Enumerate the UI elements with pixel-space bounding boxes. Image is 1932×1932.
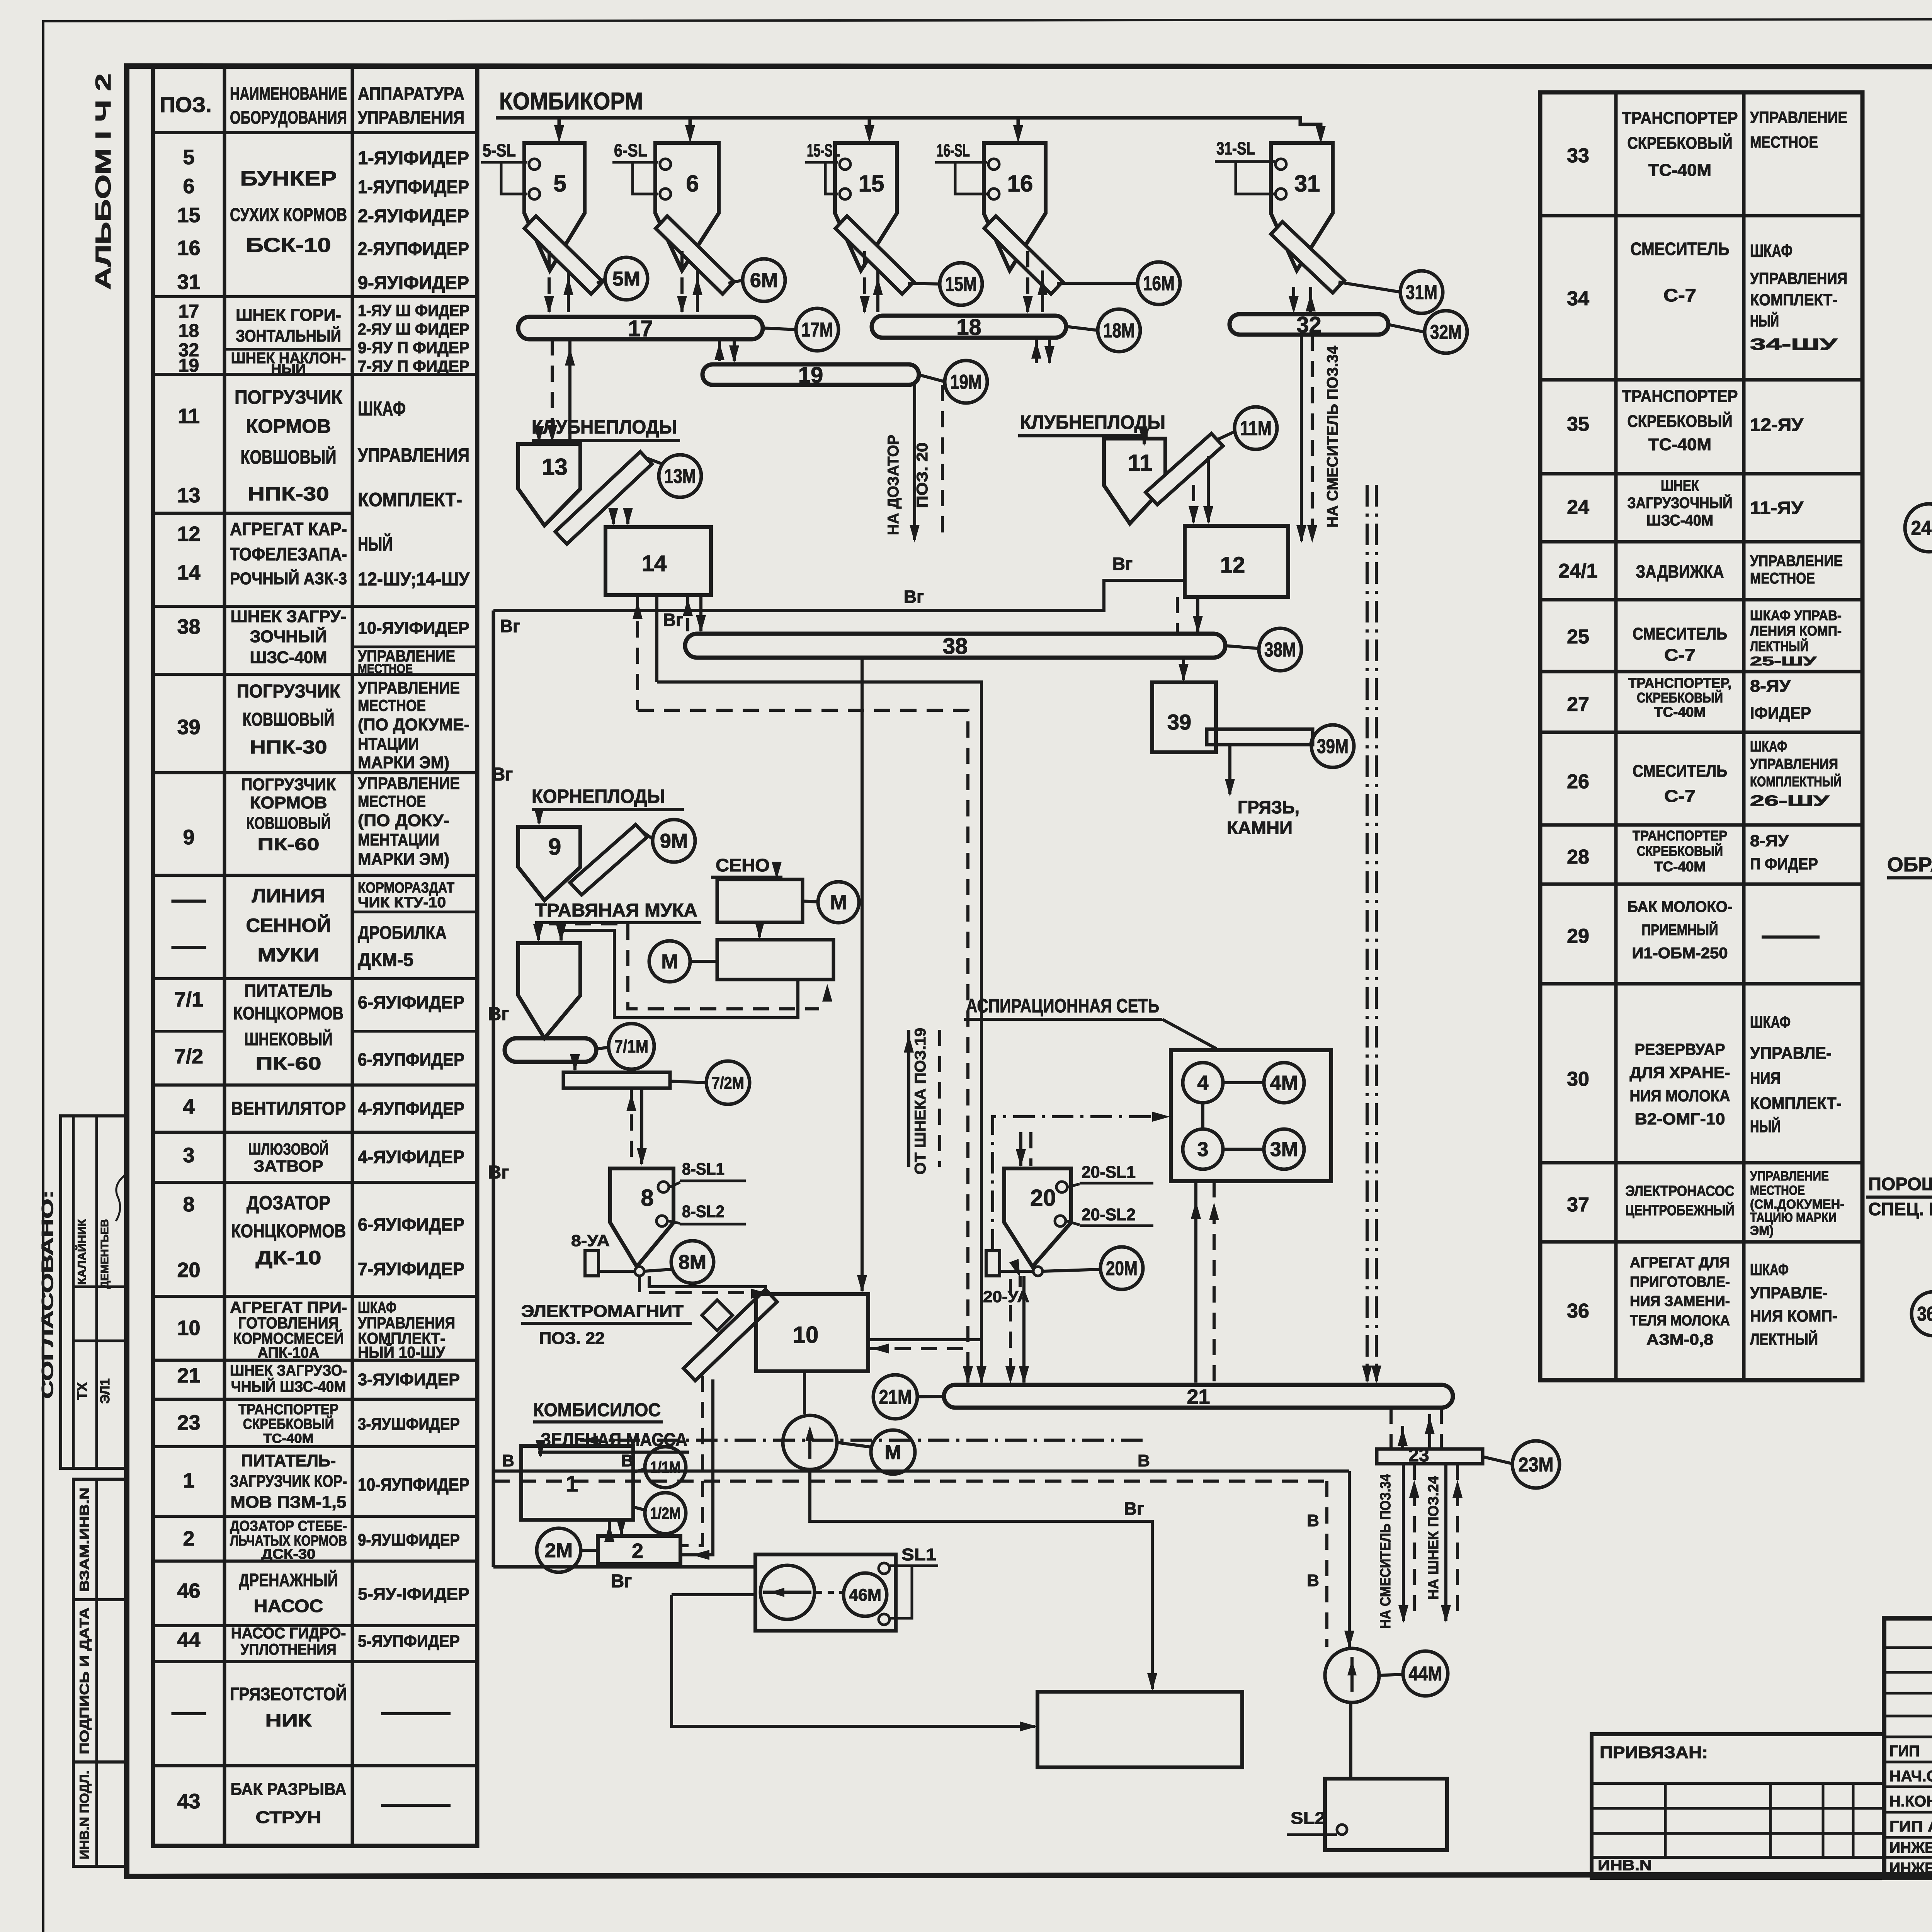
svg-text:1-ЯУ Ш ФИДЕР: 1-ЯУ Ш ФИДЕР [358,301,469,320]
В lines down to pump 44 [1348,1471,1351,1647]
svg-text:5М: 5М [612,268,640,290]
junction of 20 [1033,1267,1043,1276]
svg-text:В: В [1307,1511,1319,1530]
svg-text:АЗМ-0,8: АЗМ-0,8 [1646,1331,1713,1348]
svg-text:17: 17 [179,301,199,322]
svg-text:НА ШНЕК ПОЗ.24: НА ШНЕК ПОЗ.24 [1425,1476,1442,1600]
svg-text:25: 25 [1567,626,1589,648]
wires conveyor31 to 32 [1292,287,1295,312]
svg-text:18: 18 [179,321,199,341]
svg-text:9-ЯУШФИДЕР: 9-ЯУШФИДЕР [358,1531,460,1549]
svg-text:28: 28 [1567,846,1589,868]
svg-text:УПРАВЛЕНИЯ: УПРАВЛЕНИЯ [358,444,469,466]
svg-text:ДОЗАТОР: ДОЗАТОР [247,1192,330,1214]
wires box10 right to 21 [868,1338,981,1341]
svg-text:ИНЖЕН.: ИНЖЕН. [1889,1839,1932,1856]
svg-text:П ФИДЕР: П ФИДЕР [1750,855,1818,873]
svg-text:КОНЦКОРМОВ: КОНЦКОРМОВ [233,1003,344,1023]
svg-text:ЦЕНТРОБЕЖНЫЙ: ЦЕНТРОБЕЖНЫЙ [1626,1201,1735,1219]
svg-text:НЫЙ: НЫЙ [271,361,306,376]
svg-text:20М: 20М [1106,1257,1138,1280]
svg-text:ГИП: ГИП [1889,1743,1920,1760]
svg-text:2-ЯУПФИДЕР: 2-ЯУПФИДЕР [358,239,469,259]
svg-text:1-ЯУПФИДЕР: 1-ЯУПФИДЕР [358,177,469,197]
svg-text:(СМ.ДОКУМЕН-: (СМ.ДОКУМЕН- [1750,1197,1844,1212]
svg-text:СТРУН: СТРУН [256,1808,321,1827]
svg-text:4-ЯУПФИДЕР: 4-ЯУПФИДЕР [358,1099,464,1119]
svg-text:ГИП А: ГИП А [1889,1818,1932,1835]
svg-text:РОЧНЫЙ АЗК-3: РОЧНЫЙ АЗК-3 [230,568,347,588]
svg-text:4М: 4М [1270,1072,1298,1094]
svg-text:6: 6 [686,170,699,196]
svg-text:8: 8 [641,1185,653,1211]
svg-text:ПОГРУЗЧИК: ПОГРУЗЧИК [235,386,342,408]
svg-text:31-SL: 31-SL [1216,138,1255,158]
svg-text:СКРЕБКОВЫЙ: СКРЕБКОВЫЙ [243,1415,334,1432]
svg-text:20-SL2: 20-SL2 [1082,1205,1136,1224]
svg-text:ОБРАТ: ОБРАТ [1887,854,1932,876]
motor circle 8М [671,1241,714,1283]
svg-text:УПРАВЛЕ-: УПРАВЛЕ- [1750,1284,1828,1302]
svg-text:КАЛАЙНИК: КАЛАЙНИК [75,1219,88,1285]
svg-text:КОМБИСИЛОС: КОМБИСИЛОС [533,1400,661,1420]
svg-text:7-ЯУIФИДЕР: 7-ЯУIФИДЕР [358,1259,464,1279]
svg-text:ЗОЧНЫЙ: ЗОЧНЫЙ [250,626,327,646]
motor circle 32М [1425,311,1467,353]
wire сено box to дробилка [758,922,761,937]
svg-text:Н.КОНТР.: Н.КОНТР. [1889,1793,1932,1810]
svg-text:38М: 38М [1264,639,1296,661]
svg-text:ПРИГОТОВЛЕ-: ПРИГОТОВЛЕ- [1630,1274,1730,1290]
svg-text:21М: 21М [879,1386,912,1408]
Вг main left vertical [492,611,495,1567]
svg-text:26: 26 [1567,770,1589,793]
svg-text:НТАЦИИ: НТАЦИИ [358,735,419,753]
svg-text:20: 20 [1030,1185,1056,1211]
motor circle 4 [1183,1063,1223,1103]
svg-text:М: М [884,1441,901,1464]
svg-text:ШЗС-40М: ШЗС-40М [1646,512,1713,529]
conveyor of bunker 6 [656,216,734,294]
wire комбикорм feed line [496,118,1321,135]
svg-text:НИЯ МОЛОКА: НИЯ МОЛОКА [1630,1087,1730,1105]
svg-text:13: 13 [542,454,568,480]
svg-text:КОМПЛЕКТ-: КОМПЛЕКТ- [1750,291,1837,309]
svg-text:РЕЗЕРВУАР: РЕЗЕРВУАР [1635,1040,1725,1058]
svg-text:ИНВ.N: ИНВ.N [1598,1857,1652,1874]
svg-text:НЫЙ 10-ШУ: НЫЙ 10-ШУ [358,1343,446,1361]
svg-text:Вг: Вг [500,616,520,636]
svg-text:12: 12 [1220,553,1245,578]
svg-text:1: 1 [566,1471,578,1497]
svg-text:НАСОС ГИДРО-: НАСОС ГИДРО- [231,1625,346,1642]
svg-text:44: 44 [177,1628,200,1651]
svg-text:ГРЯЗЬ,: ГРЯЗЬ, [1238,797,1299,817]
svg-text:4: 4 [1197,1072,1209,1094]
svg-text:5: 5 [553,170,566,196]
dashdot horizontal line поз.22 [580,1439,1144,1442]
svg-text:ТС-40М: ТС-40М [1648,161,1711,180]
svg-text:8-ЯУ: 8-ЯУ [1750,677,1791,696]
svg-text:КОВШОВЫЙ: КОВШОВЫЙ [241,446,337,468]
motor circle 44М [1403,1651,1448,1696]
motor circle 7/2М [706,1061,750,1104]
svg-text:ПОГРУЗЧИК: ПОГРУЗЧИК [237,681,340,702]
wire feed drop [558,118,561,133]
svg-text:2М: 2М [545,1539,573,1562]
pump 44 [1325,1648,1379,1702]
svg-text:КОВШОВЫЙ: КОВШОВЫЙ [242,709,334,730]
svg-text:НА СМЕСИТЕЛЬ ПОЗ.34: НА СМЕСИТЕЛЬ ПОЗ.34 [1324,345,1341,527]
svg-text:НАСОС: НАСОС [254,1596,323,1616]
svg-text:ТРАНСПОРТЕР: ТРАНСПОРТЕР [1622,387,1738,406]
bunker 5 [524,143,585,270]
wires box12 to conveyor 38 [1176,597,1179,632]
svg-text:ТРАНСПОРТЕР: ТРАНСПОРТЕР [1622,109,1738,128]
svg-text:МЕСТНОЕ: МЕСТНОЕ [1750,1183,1805,1198]
svg-text:ШКАФ УПРАВ-: ШКАФ УПРАВ- [1750,607,1842,623]
conveyor 7/1 [505,1038,596,1062]
wire Вг stub into box14 [686,595,689,611]
svg-text:9: 9 [548,834,561,860]
svg-text:20-SL1: 20-SL1 [1082,1163,1136,1182]
svg-text:5-SL: 5-SL [483,140,516,160]
дозатор 8 [610,1168,673,1267]
hopper 13 [518,444,580,526]
svg-text:2-ЯУIФИДЕР: 2-ЯУIФИДЕР [358,206,469,226]
wires 7/2 to дозатор 8 [630,1088,633,1164]
svg-text:ПИТАТЕЛЬ-: ПИТАТЕЛЬ- [241,1451,336,1470]
svg-text:ДРЕНАЖНЫЙ: ДРЕНАЖНЫЙ [239,1570,338,1590]
svg-text:23: 23 [1408,1445,1429,1466]
svg-text:МАРКИ ЭМ): МАРКИ ЭМ) [358,753,449,772]
В suction lines [493,1469,1349,1473]
svg-text:ПОДПИСЬ И ДАТА: ПОДПИСЬ И ДАТА [77,1607,92,1754]
svg-text:КОРМОВ: КОРМОВ [246,415,331,437]
motor circle 16М [1138,262,1180,304]
svg-text:КАМНИ: КАМНИ [1227,818,1293,838]
svg-text:УПРАВЛЕНИЕ: УПРАВЛЕНИЕ [358,774,460,793]
svg-text:ЛИНИЯ: ЛИНИЯ [252,885,325,906]
svg-text:ГРЯЗЕОТСТОЙ: ГРЯЗЕОТСТОЙ [230,1684,347,1704]
svg-text:16-SL: 16-SL [937,140,970,160]
svg-text:СКРЕБКОВЫЙ: СКРЕБКОВЫЙ [1628,133,1733,153]
conveyor 18 [872,316,1066,338]
svg-text:ИНВ.N ПОДЛ.: ИНВ.N ПОДЛ. [77,1770,92,1859]
wire dashdot to conveyor 23 [1366,485,1369,1381]
motor circle 6М [743,259,785,301]
motor circle 23М [1512,1441,1560,1488]
svg-text:ДЛЯ ХРАНЕ-: ДЛЯ ХРАНЕ- [1630,1063,1730,1082]
svg-text:38: 38 [177,615,200,638]
svg-text:АППАРАТУРА: АППАРАТУРА [358,83,464,104]
svg-text:КОРМОРАЗДАТ: КОРМОРАЗДАТ [358,880,454,896]
svg-text:5-ЯУПФИДЕР: 5-ЯУПФИДЕР [358,1632,460,1651]
bunker 16 [984,143,1046,270]
wire 38 to box 39 [1182,658,1185,680]
side stamp СОГЛАСОВАНО block [61,1116,127,1468]
svg-text:НИК: НИК [265,1710,312,1730]
conveyor 11 [1146,434,1223,505]
svg-text:39М: 39М [1317,735,1349,758]
box 14 [605,527,711,595]
svg-text:ОБОРУДОВАНИЯ: ОБОРУДОВАНИЯ [230,107,347,128]
motor circle 1/1М [645,1447,686,1488]
svg-text:В: В [502,1451,514,1470]
box дробилка ДКМ-5 [717,940,833,980]
svg-text:8: 8 [183,1193,194,1216]
электромагнит diamond [702,1300,732,1330]
motor circle М [649,941,690,982]
svg-text:46М: 46М [849,1585,881,1604]
svg-text:14: 14 [642,551,667,576]
side stamp lower block [73,1479,127,1866]
motor circle 15М [940,263,982,305]
svg-text:КОМПЛЕКТ-: КОМПЛЕКТ- [1750,1094,1842,1113]
wires 32 down / label на смеситель поз.34 [1300,335,1303,541]
svg-text:6-ЯУIФИДЕР: 6-ЯУIФИДЕР [358,992,464,1012]
svg-text:УПРАВЛЕНИЕ: УПРАВЛЕНИЕ [1750,553,1843,570]
svg-text:ЧИК КТУ-10: ЧИК КТУ-10 [358,895,446,911]
svg-text:МАРКИ ЭМ): МАРКИ ЭМ) [358,850,449,869]
left equipment table frame [153,66,477,1846]
svg-text:9-ЯУIФИДЕР: 9-ЯУIФИДЕР [358,273,469,293]
svg-text:30: 30 [1567,1068,1589,1090]
svg-text:25-ШУ: 25-ШУ [1750,654,1817,668]
svg-text:44М: 44М [1409,1663,1442,1685]
svg-text:12-ШУ;14-ШУ: 12-ШУ;14-ШУ [358,569,470,590]
wires 11 to box 12 [1192,485,1195,522]
svg-text:ДКМ-5: ДКМ-5 [358,950,413,970]
svg-text:УПРАВЛЕНИЕ: УПРАВЛЕНИЕ [1750,108,1847,126]
svg-text:(ПО ДОКУ-: (ПО ДОКУ- [358,811,449,830]
svg-text:10-ЯУПФИДЕР: 10-ЯУПФИДЕР [358,1475,469,1495]
bottom box water [1037,1692,1242,1767]
svg-text:ЛЕКТНЫЙ: ЛЕКТНЫЙ [1750,638,1808,654]
svg-text:9М: 9М [660,830,688,852]
wire into 46 [672,1593,755,1596]
svg-text:СМЕСИТЕЛЬ: СМЕСИТЕЛЬ [1631,239,1730,259]
svg-text:ТРАНСПОРТЕР: ТРАНСПОРТЕР [238,1401,338,1418]
svg-text:15: 15 [859,170,884,196]
title block [1884,1618,1932,1878]
svg-text:ЭЛЕКТРОНАСОС: ЭЛЕКТРОНАСОС [1626,1183,1735,1199]
svg-text:В2-ОМГ-10: В2-ОМГ-10 [1635,1110,1725,1128]
svg-text:9: 9 [183,826,194,849]
motor circle 17М [796,308,838,351]
svg-text:21: 21 [177,1364,200,1387]
pins of bunker 5 [529,159,540,170]
svg-text:ТС-40М: ТС-40М [1648,435,1711,454]
svg-text:17М: 17М [801,319,833,341]
motor circle 46М [844,1573,887,1616]
svg-text:НА ДОЗАТОР: НА ДОЗАТОР [885,435,902,535]
svg-text:43: 43 [177,1790,200,1813]
svg-text:3-ЯУIФИДЕР: 3-ЯУIФИДЕР [358,1370,460,1389]
svg-text:6-ЯУПФИДЕР: 6-ЯУПФИДЕР [358,1049,464,1070]
wires 20 junction to 21 [1009,1279,1012,1383]
svg-text:Вг: Вг [488,1162,509,1183]
svg-text:8-УА: 8-УА [571,1231,610,1250]
svg-text:Вг: Вг [492,764,513,785]
svg-text:НА СМЕСИТЕЛЬ ПОЗ.34: НА СМЕСИТЕЛЬ ПОЗ.34 [1378,1474,1394,1629]
motor circle 13М [659,455,701,497]
svg-text:7/1М: 7/1М [614,1036,648,1056]
svg-text:НЫЙ: НЫЙ [358,533,393,555]
svg-text:ТРАВЯНАЯ МУКА: ТРАВЯНАЯ МУКА [535,900,697,921]
svg-text:МУКИ: МУКИ [258,944,320,966]
svg-text:ТС-40М: ТС-40М [264,1431,314,1446]
label на дозатор поз.20 [913,385,916,540]
svg-text:8-SL1: 8-SL1 [682,1160,724,1179]
motor circle 7/1М [609,1024,654,1069]
svg-text:4-ЯУIФИДЕР: 4-ЯУIФИДЕР [358,1147,464,1167]
дозатор 20 [1004,1168,1071,1267]
svg-text:СКРЕБКОВЫЙ: СКРЕБКОВЫЙ [1637,689,1723,706]
svg-text:ПРИЕМНЫЙ: ПРИЕМНЫЙ [1642,921,1718,939]
svg-text:СЕНО: СЕНО [716,855,770,875]
svg-text:29: 29 [1567,925,1589,947]
wire feed drop [1017,118,1020,133]
wires на смеситель / на шнек [1402,1464,1405,1621]
svg-text:11: 11 [178,405,200,428]
svg-text:АГРЕГАТ ДЛЯ: АГРЕГАТ ДЛЯ [1630,1255,1730,1271]
conveyor 9 [570,825,647,895]
svg-text:СПЕЦ. КОМБИКОРМ: СПЕЦ. КОМБИКОРМ [1868,1199,1932,1219]
svg-text:УПРАВЛЕНИЕ: УПРАВЛЕНИЕ [358,679,460,697]
svg-text:ТОФЕЛЕЗАПА-: ТОФЕЛЕЗАПА- [230,544,347,564]
svg-text:СОГЛАСОВАНО:: СОГЛАСОВАНО: [38,1190,56,1399]
svg-text:19: 19 [179,355,199,376]
svg-text:ШЗС-40М: ШЗС-40М [250,648,327,667]
motor circle 3 [1183,1129,1223,1169]
svg-text:7-ЯУ П ФИДЕР: 7-ЯУ П ФИДЕР [358,357,469,375]
motor circle 5М [605,257,648,300]
motor circle 20М [1100,1247,1143,1289]
svg-text:1/1М: 1/1М [650,1458,681,1476]
svg-text:В: В [1307,1571,1319,1590]
wire pump44 to bak 43 [1349,1702,1352,1777]
wires 17-19, 18-19 [718,339,721,361]
conveyor 17 [518,317,763,339]
svg-text:ВЗАМ.ИНВ.N: ВЗАМ.ИНВ.N [77,1488,92,1592]
pins of bunker 15 [840,159,850,170]
аспирационная сеть box [1171,1050,1331,1181]
wires от шнека поз.19 [907,1030,910,1167]
svg-text:6-ЯУIФИДЕР: 6-ЯУIФИДЕР [358,1214,464,1235]
svg-text:ДРОБИЛКА: ДРОБИЛКА [358,923,447,943]
svg-text:ТРАНСПОРТЕР,: ТРАНСПОРТЕР, [1628,675,1731,691]
svg-text:МЕСТНОЕ: МЕСТНОЕ [358,662,413,676]
box измельчитель сена [717,879,803,922]
svg-text:11М: 11М [1240,417,1272,440]
motor circle 24М [1905,504,1932,552]
svg-text:ПОРОШОК ЗЦМ ИЛИ: ПОРОШОК ЗЦМ ИЛИ [1868,1174,1932,1194]
svg-text:24: 24 [1567,496,1589,519]
Вг line to box 1 bottom [810,1469,1152,1689]
svg-text:31: 31 [177,270,200,294]
wires conveyor10 down to box 2 [680,1376,702,1546]
svg-text:МЕСТНОЕ: МЕСТНОЕ [1750,570,1815,587]
svg-text:НИЯ: НИЯ [1750,1069,1781,1088]
svg-text:УПРАВЛЕНИЕ: УПРАВЛЕНИЕ [1750,1169,1829,1184]
wire 38 to box 10 vertical [861,658,864,1291]
svg-text:ТХ: ТХ [74,1382,90,1400]
2М [580,1549,598,1552]
svg-text:ШКАФ: ШКАФ [1750,241,1793,261]
svg-text:БУНКЕР: БУНКЕР [240,167,337,190]
привязан block [1592,1734,1884,1878]
21М [917,1396,944,1397]
svg-text:19М: 19М [950,371,982,393]
1/1М 1/2М [633,1469,645,1472]
svg-text:6: 6 [183,175,194,198]
svg-text:2: 2 [183,1527,194,1550]
svg-text:МЕНТАЦИИ: МЕНТАЦИИ [358,830,439,849]
svg-text:НИЯ КОМП-: НИЯ КОМП- [1750,1307,1837,1325]
svg-text:Вг: Вг [1112,554,1133,574]
svg-text:МЕСТНОЕ: МЕСТНОЕ [1750,133,1818,151]
motor circle 36М [1912,1292,1932,1336]
motor circle 3М [1264,1129,1304,1169]
svg-text:26-ШУ: 26-ШУ [1750,793,1830,809]
wires аспирация down to 21 [1194,1181,1197,1383]
svg-text:КОНЦКОРМОВ: КОНЦКОРМОВ [231,1221,346,1242]
svg-text:ДОЗАТОР СТЕБЕ-: ДОЗАТОР СТЕБЕ- [230,1518,347,1534]
conveyor of bunker 31 [1271,222,1344,293]
svg-text:16М: 16М [1143,272,1175,295]
svg-text:46: 46 [177,1579,200,1602]
wires 1 to 2 [608,1520,611,1535]
svg-text:14: 14 [177,561,200,584]
svg-text:23М: 23М [1519,1454,1554,1476]
svg-text:7/2: 7/2 [174,1045,203,1068]
svg-text:ДСК-30: ДСК-30 [262,1546,316,1562]
motor circle 1/2М [645,1493,686,1534]
row грязеотстойник [172,1712,206,1715]
motor circle 11М [1235,407,1277,449]
svg-text:36М: 36М [1917,1303,1932,1325]
svg-text:5-ЯУ-IФИДЕР: 5-ЯУ-IФИДЕР [358,1585,469,1604]
svg-text:АГРЕГАТ КАР-: АГРЕГАТ КАР- [230,519,347,539]
svg-text:СМЕСИТЕЛЬ: СМЕСИТЕЛЬ [1633,624,1727,643]
svg-text:ЗАДВИЖКА: ЗАДВИЖКА [1636,561,1724,582]
wire Вг from left to box12 [493,580,1185,611]
svg-text:КОВШОВЫЙ: КОВШОВЫЙ [246,813,330,833]
svg-text:(ПО ДОКУМЕ-: (ПО ДОКУМЕ- [358,715,469,734]
wires 8 to conveyor 10 [639,1276,767,1293]
hopper 11 [1104,439,1165,524]
svg-text:11: 11 [1128,450,1152,476]
dashdot 20-УА up to аспирация [993,1117,1168,1251]
svg-text:2: 2 [632,1539,643,1563]
svg-text:7/2М: 7/2М [712,1073,744,1092]
svg-text:КОРНЕПЛОДЫ: КОРНЕПЛОДЫ [532,786,665,807]
junction of 8 [635,1267,644,1276]
motor circle 38М [1259,628,1301,671]
svg-text:ПОГРУЗЧИК: ПОГРУЗЧИК [241,775,336,794]
svg-text:ДК-10: ДК-10 [256,1247,321,1269]
svg-text:СКРЕБКОВЫЙ: СКРЕБКОВЫЙ [1628,411,1733,431]
pump circle [783,1415,837,1469]
svg-text:33: 33 [1567,145,1589,167]
svg-text:20-УА: 20-УА [983,1287,1029,1306]
svg-text:18: 18 [956,315,981,340]
svg-text:ШКАФ: ШКАФ [1750,738,1787,755]
svg-text:АПК-10А: АПК-10А [258,1344,320,1361]
motor circle 31М [1400,271,1443,313]
svg-text:23: 23 [177,1411,200,1434]
